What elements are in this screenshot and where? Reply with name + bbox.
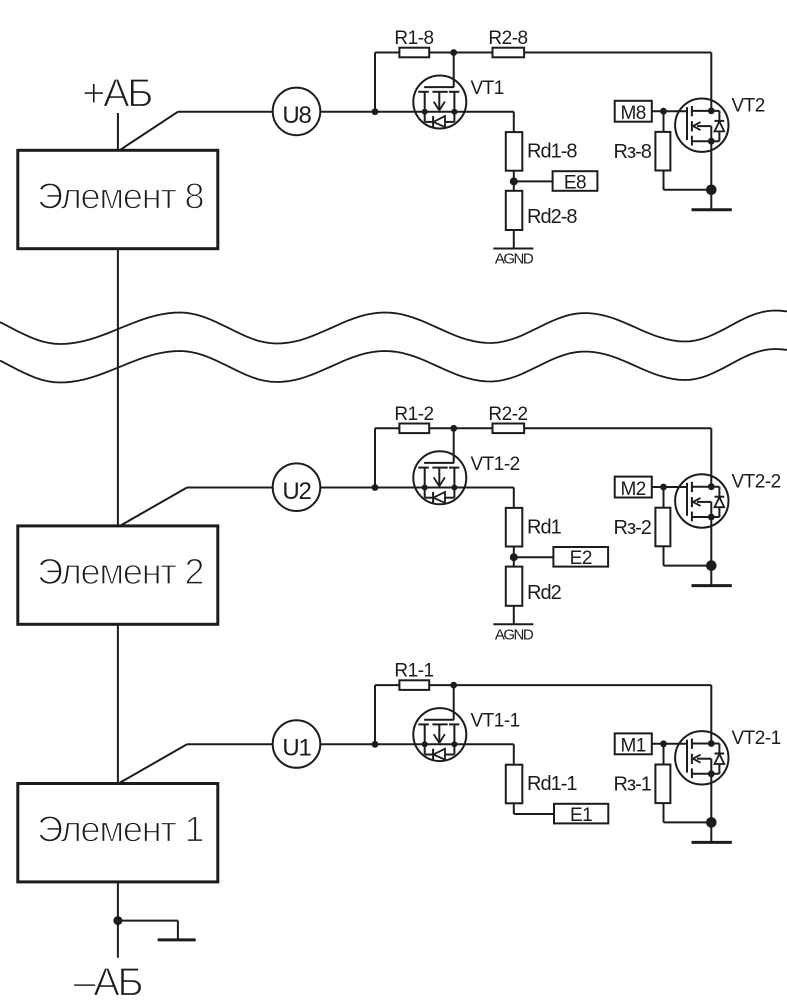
node: divider tap: [510, 553, 518, 561]
wire: Rd1-8 to divider node: [513, 171, 515, 191]
resistor Rз-8: [614, 132, 671, 171]
wire: vertical from U1 junction up to R1 rail: [374, 685, 376, 744]
wire: element 2 to element 1: [117, 624, 119, 783]
wire: M2 to gate of VT2-2: [652, 486, 687, 488]
wire: gate drop into VT1-1: [453, 685, 455, 720]
terminal box M2: [615, 477, 652, 500]
break wave lower: [0, 349, 787, 383]
voltage sensor U2: [273, 463, 321, 511]
wire: tap to E8: [514, 180, 553, 182]
svg-text:Rз-8: Rз-8: [614, 141, 652, 163]
wire: diagonal from element box to U2: [120, 488, 188, 527]
wire: R2 to VT2 drain rail: [524, 52, 711, 54]
svg-text:E1: E1: [570, 805, 592, 826]
wire: U2 to junction: [320, 487, 375, 489]
svg-text:R1-2: R1-2: [394, 404, 433, 425]
wire: rail left segment: [375, 427, 399, 429]
terminal box E8: [553, 171, 598, 193]
svg-text:E2: E2: [570, 548, 592, 569]
node: gate junction: [660, 108, 667, 115]
voltage sensor U8: [273, 88, 321, 136]
wire: rail left segment: [375, 684, 399, 686]
node: gate junction of VT1-1: [450, 682, 457, 689]
transistor VT2: [675, 99, 728, 152]
svg-text:Rз-2: Rз-2: [614, 517, 652, 539]
wire: M8 to gate of VT2: [652, 110, 687, 112]
svg-text:Rd1-8: Rd1-8: [527, 141, 577, 163]
wire: element 1 down to -AB: [117, 882, 119, 958]
wire: gate drop into VT1: [453, 53, 455, 88]
svg-text:Rd1-1: Rd1-1: [527, 773, 577, 795]
node: gate junction of VT1-2: [450, 425, 457, 432]
wire: main wire through VT1-2: [375, 487, 514, 489]
svg-text:Rз-1: Rз-1: [614, 774, 652, 796]
transistor VT2-1: [675, 731, 728, 784]
svg-text:M8: M8: [620, 103, 645, 124]
wire: VT2 source down: [710, 141, 712, 210]
svg-text:Rd2-8: Rd2-8: [527, 206, 577, 228]
svg-text:AGND: AGND: [495, 626, 534, 643]
node: gate junction: [660, 484, 667, 491]
wire: U1 to junction: [320, 743, 375, 745]
wire: junction to R2: [454, 427, 493, 429]
svg-text:–АБ: –АБ: [73, 961, 142, 1001]
wire: main wire through VT1: [375, 111, 514, 113]
wire: to voltage sensor U8: [178, 111, 273, 113]
terminal box M8: [615, 101, 652, 124]
ground under VT2-1: [692, 841, 732, 844]
wire: vertical from U8 junction up to R1 rail: [374, 53, 376, 112]
svg-text:R1-1: R1-1: [394, 661, 433, 682]
node: source/ground junction: [706, 817, 717, 828]
svg-text:R2-2: R2-2: [488, 404, 527, 425]
wire: rail left segment: [375, 52, 399, 54]
node: main wire junction: [372, 108, 379, 115]
node: main wire junction: [372, 484, 379, 491]
wire: to chassis ground: [118, 920, 178, 922]
wire: down to Rз-1: [663, 744, 665, 765]
wire: VT2-2 source down: [710, 517, 712, 586]
svg-text:U2: U2: [282, 478, 311, 505]
svg-text:R2-8: R2-8: [488, 28, 527, 49]
wire: Rз-2 to source node: [663, 546, 665, 565]
wire: down to Rз-8: [663, 111, 665, 132]
wire: junction to R2: [454, 52, 493, 54]
node: source/ground junction: [706, 560, 717, 571]
wire: to voltage sensor U2: [187, 487, 273, 489]
resistor R1-1: [394, 661, 433, 690]
ground AGND: [493, 249, 534, 268]
transistor VT1-1: [413, 708, 466, 761]
wire: rail to junction: [429, 52, 454, 54]
node: divider tap: [510, 177, 518, 185]
svg-text:VT2-1: VT2-1: [732, 728, 781, 749]
wire: rail to junction: [429, 684, 454, 686]
resistor R1-8: [394, 28, 433, 57]
svg-text:+АБ: +АБ: [82, 72, 152, 116]
ground under VT2: [692, 208, 732, 211]
svg-text:U1: U1: [282, 735, 311, 762]
wire: tap to E2: [514, 556, 554, 558]
wire: U8 to junction: [320, 111, 375, 113]
wire: vertical from U2 junction up to R1 rail: [374, 428, 376, 487]
wire: VT2-1 source down: [710, 774, 712, 843]
wire: down to Rd1-8: [513, 112, 515, 132]
svg-text:VT1-1: VT1-1: [471, 711, 520, 732]
chassis ground bar: [158, 938, 196, 941]
resistor Rd1-8: [506, 132, 578, 171]
transistor VT1-2: [413, 451, 466, 504]
transistor VT1: [413, 76, 466, 129]
svg-text:R1-8: R1-8: [394, 28, 433, 49]
resistor Rd1-1: [506, 765, 578, 804]
wire: Rd1 to divider node: [513, 547, 515, 567]
node: gate junction of VT1: [450, 49, 457, 56]
svg-text:VT2: VT2: [732, 96, 765, 117]
wire: drain rail down to VT2-1: [710, 685, 712, 743]
wire: to voltage sensor U1: [187, 743, 273, 745]
wire: down to Rd1-1: [513, 744, 515, 764]
node: gate junction: [660, 740, 667, 747]
svg-text:E8: E8: [564, 172, 586, 193]
resistor Rd2-8: [506, 191, 578, 230]
svg-text:Элемент 2: Элемент 2: [37, 551, 203, 592]
wire: main wire through VT1-1: [375, 743, 514, 745]
wire: gate drop into VT1-2: [453, 428, 455, 463]
svg-text:VT2-2: VT2-2: [732, 471, 781, 492]
battery cell element 2: [18, 526, 218, 624]
wire: diagonal from element box to U1: [120, 744, 188, 783]
terminal box M1: [615, 733, 652, 756]
node: -AB junction: [113, 916, 122, 925]
wire: drain rail down to VT2: [710, 53, 712, 111]
svg-text:M2: M2: [620, 479, 645, 500]
resistor Rз-1: [614, 765, 671, 804]
resistor Rd1: [506, 508, 562, 547]
wire: junction to VT2 drain rail: [454, 684, 712, 686]
voltage sensor U1: [273, 720, 321, 768]
svg-text:AGND: AGND: [495, 251, 534, 268]
transistor VT2-2: [675, 474, 728, 527]
wire: Rз-8 to source node: [663, 171, 665, 190]
svg-text:VT1-2: VT1-2: [471, 454, 520, 475]
resistor R1-2: [394, 404, 433, 433]
node: main wire junction: [372, 741, 379, 748]
wire: rail to junction: [429, 427, 454, 429]
battery cell element 8: [18, 150, 218, 248]
resistor Rз-2: [614, 508, 671, 547]
wire: down to Rз-2: [663, 487, 665, 508]
wire: diagonal from element box to U8: [120, 112, 179, 151]
wire: drain rail down to VT2-2: [710, 428, 712, 486]
wire: Rd2-8 to AGND: [513, 230, 515, 249]
wire: +AB to element 8: [117, 113, 119, 150]
svg-text:Элемент 8: Элемент 8: [37, 176, 203, 217]
ground under VT2-2: [692, 584, 732, 587]
wire: Rз-1 to source node: [663, 803, 665, 822]
svg-text:Элемент 1: Элемент 1: [37, 809, 203, 850]
node: source/ground junction: [706, 185, 717, 196]
wire: M1 to gate of VT2-1: [652, 743, 687, 745]
svg-text:VT1: VT1: [471, 78, 504, 99]
resistor R2-8: [488, 28, 527, 57]
svg-text:Rd2: Rd2: [527, 582, 562, 604]
resistor Rd2: [506, 567, 562, 606]
svg-text:U8: U8: [282, 102, 311, 129]
terminal box E1: [554, 804, 608, 826]
wire: down to Rd1: [513, 488, 515, 508]
resistor R2-2: [488, 404, 527, 433]
svg-text:M1: M1: [620, 736, 645, 757]
wire: R2 to VT2 drain rail: [524, 427, 711, 429]
wire: element 8 down through break: [117, 249, 119, 526]
battery cell element 1: [18, 784, 218, 882]
wire: Rd2 to AGND: [513, 606, 515, 625]
break wave upper: [0, 311, 787, 345]
terminal box E2: [553, 547, 608, 569]
svg-text:Rd1: Rd1: [527, 516, 562, 538]
wire: Rd1-1 L-wire to E1: [513, 803, 515, 814]
ground AGND: [493, 624, 534, 643]
